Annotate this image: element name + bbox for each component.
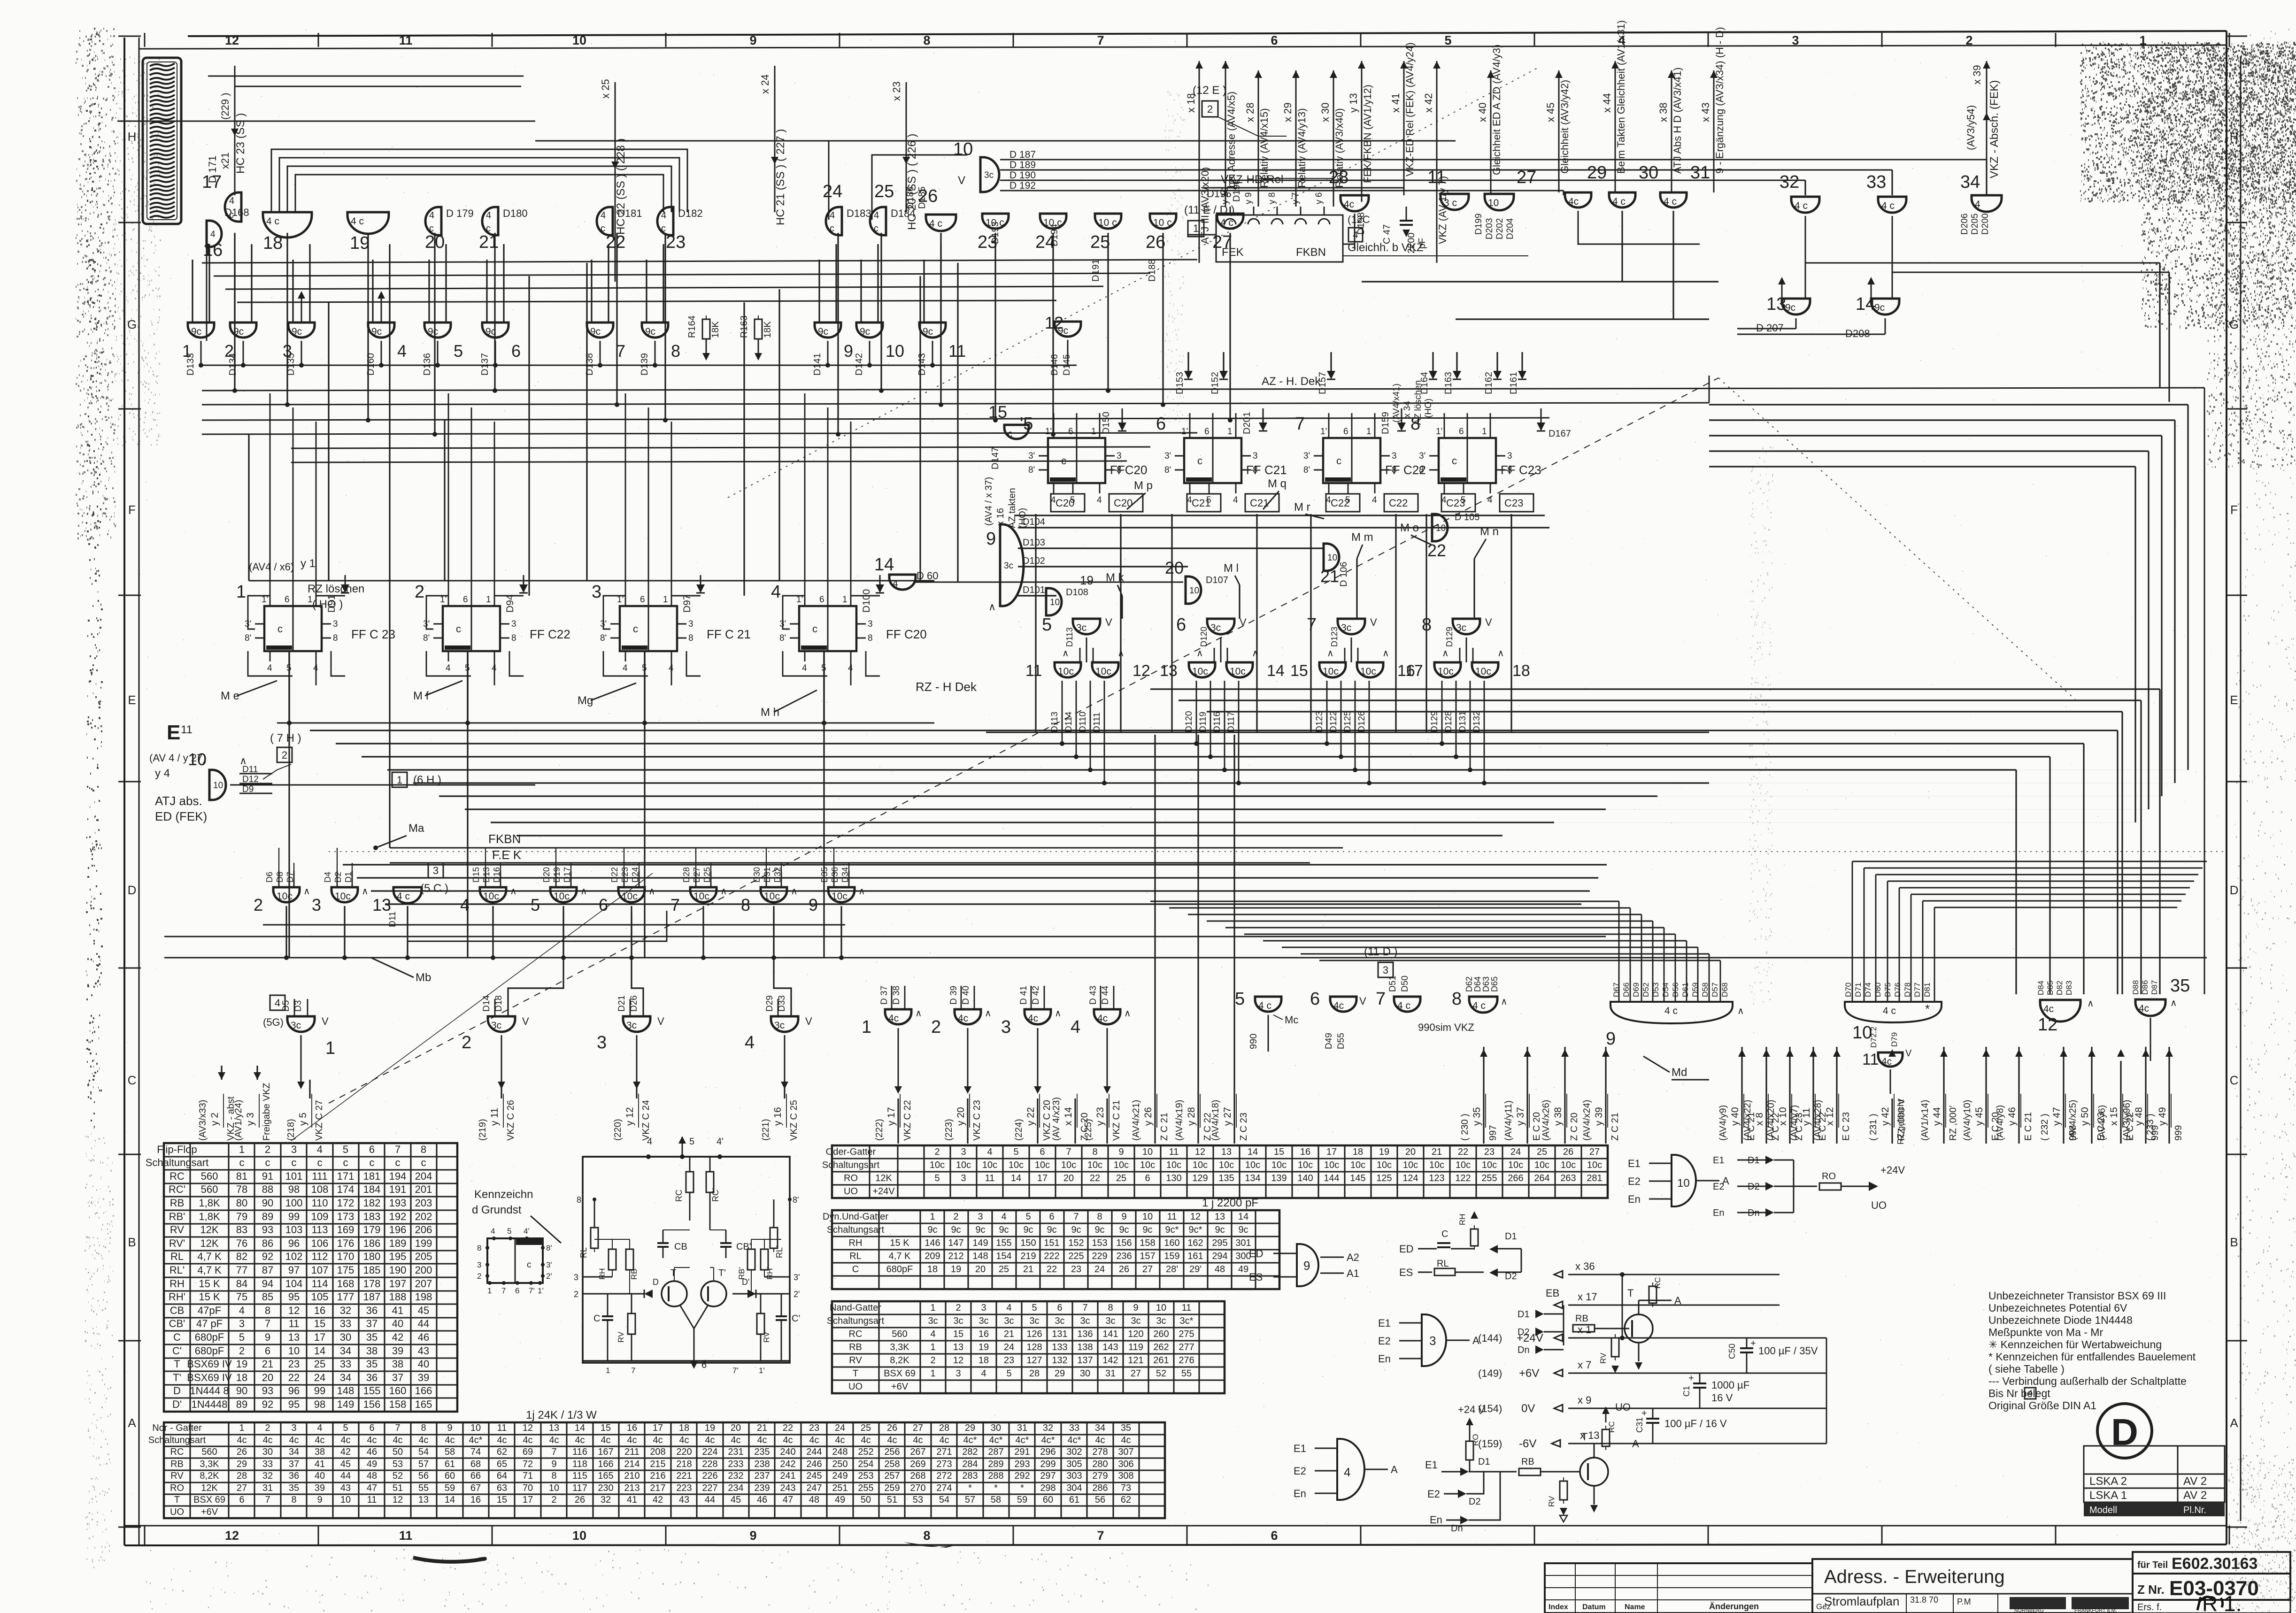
svg-text:25: 25 <box>874 182 894 201</box>
svg-text:12: 12 <box>953 1355 963 1366</box>
svg-text:D108: D108 <box>1066 587 1088 598</box>
svg-text:104: 104 <box>285 1278 303 1290</box>
diode D <box>644 1290 653 1298</box>
svg-text:H: H <box>2230 130 2239 144</box>
svg-text:D161: D161 <box>1509 372 1519 394</box>
svg-text:10: 10 <box>1142 1212 1153 1222</box>
svg-text:89: 89 <box>262 1211 273 1222</box>
svg-text:c: c <box>812 623 817 635</box>
svg-text:y 5: y 5 <box>298 1113 308 1126</box>
resistor R164 18K <box>702 319 710 339</box>
svg-text:6: 6 <box>1068 427 1073 437</box>
svg-text:57: 57 <box>965 1495 975 1505</box>
svg-text:RV: RV <box>1547 1496 1556 1507</box>
svg-text:271: 271 <box>936 1447 952 1457</box>
svg-text:y 11: y 11 <box>1801 1108 1812 1126</box>
svg-text:306: 306 <box>1118 1459 1133 1469</box>
svg-text:5: 5 <box>531 895 540 914</box>
flip-flop FF C21 (right) <box>1184 438 1241 483</box>
svg-text:4c: 4c <box>731 1435 740 1445</box>
svg-text:1: 1 <box>663 595 668 605</box>
wire FF circuit bottom rail <box>583 1360 790 1362</box>
svg-text:13: 13 <box>953 1342 963 1352</box>
svg-text:D28: D28 <box>682 867 691 883</box>
svg-text:D120: D120 <box>1184 711 1194 732</box>
wire signal y 20 VKZ C 23 <box>967 1098 968 1144</box>
svg-text:6: 6 <box>599 895 608 914</box>
svg-text:7: 7 <box>265 1495 270 1505</box>
gate 5 (9c) diode D136 <box>424 323 451 338</box>
svg-text:RO: RO <box>170 1483 184 1493</box>
svg-text:9 - Ergänzung (AV3/x34) (H -: 9 - Ergänzung (AV3/x34) (H - D) <box>1714 27 1726 174</box>
svg-text:7: 7 <box>551 1447 556 1457</box>
node (5C) box 3 <box>428 863 443 878</box>
svg-text:6: 6 <box>1057 1303 1062 1313</box>
svg-text:140: 140 <box>1297 1173 1313 1183</box>
svg-text:NÜRNBERG: NÜRNBERG <box>2014 1608 2044 1613</box>
svg-text:x 12: x 12 <box>1825 1107 1835 1126</box>
svg-text:8': 8' <box>1303 465 1310 475</box>
svg-text:RC': RC' <box>169 1183 185 1195</box>
svg-text:3c: 3c <box>1029 1316 1039 1326</box>
svg-text:21: 21 <box>262 1358 273 1370</box>
svg-text:D86: D86 <box>2141 980 2150 995</box>
svg-text:254: 254 <box>858 1459 873 1469</box>
svg-text:Schaltungsart: Schaltungsart <box>827 1225 885 1235</box>
svg-text:75: 75 <box>236 1291 247 1303</box>
svg-text:8: 8 <box>741 895 750 914</box>
resistor RH <box>609 1249 616 1270</box>
svg-text:1N444 8: 1N444 8 <box>190 1385 229 1397</box>
svg-text:1: 1 <box>486 595 491 605</box>
svg-text:28: 28 <box>1329 168 1348 187</box>
svg-text:D 192: D 192 <box>1009 180 1036 191</box>
svg-text:1: 1 <box>862 1017 871 1037</box>
svg-text:3c: 3c <box>1341 622 1351 633</box>
svg-text:25: 25 <box>861 1423 871 1433</box>
svg-text:4c: 4c <box>237 1435 247 1445</box>
wire power rail x17 <box>1568 1305 1780 1306</box>
svg-text:VKZ C 27: VKZ C 27 <box>314 1100 324 1141</box>
svg-text:y 49: y 49 <box>2157 1107 2168 1126</box>
svg-text:56: 56 <box>1095 1495 1105 1505</box>
svg-text:12: 12 <box>393 1495 403 1505</box>
svg-text:146: 146 <box>925 1238 940 1248</box>
svg-text:14: 14 <box>575 1423 585 1433</box>
svg-text:c: c <box>601 223 605 234</box>
svg-text:36: 36 <box>366 1372 378 1383</box>
svg-text:192: 192 <box>389 1211 407 1222</box>
svg-text:31: 31 <box>1017 1423 1027 1433</box>
wire horizontal link y300 <box>535 140 1193 142</box>
svg-text:91: 91 <box>262 1170 273 1182</box>
svg-text:98: 98 <box>288 1183 300 1195</box>
svg-text:149: 149 <box>972 1238 988 1248</box>
svg-text:29: 29 <box>1587 163 1607 183</box>
svg-text:4: 4 <box>486 210 491 221</box>
svg-text:9: 9 <box>986 529 996 549</box>
svg-text:33: 33 <box>1069 1423 1079 1433</box>
svg-text:D80: D80 <box>1873 983 1882 997</box>
svg-text:x 25: x 25 <box>600 79 611 99</box>
svg-text:4c: 4c <box>1568 196 1579 207</box>
wire FF pins 3 and 2 rails <box>583 1276 612 1278</box>
svg-text:5: 5 <box>343 1423 348 1433</box>
svg-text:58: 58 <box>991 1495 1001 1505</box>
svg-text:160: 160 <box>1164 1238 1179 1248</box>
svg-text:10 c: 10 c <box>1098 217 1117 228</box>
wire signal y 44 RZ ,000' <box>1943 1047 1944 1144</box>
svg-text:(HO): (HO) <box>1424 399 1433 418</box>
svg-text:E: E <box>128 693 136 707</box>
svg-text:D63: D63 <box>1481 976 1491 992</box>
svg-text:13: 13 <box>1221 1147 1232 1157</box>
svg-text:Schaltungsart: Schaltungsart <box>827 1316 885 1326</box>
svg-text:1: 1 <box>397 774 402 786</box>
svg-text:c: c <box>292 1157 297 1168</box>
gate 27 (10c) <box>1485 194 1514 210</box>
svg-text:C: C <box>593 1313 600 1324</box>
svg-text:D8: D8 <box>275 872 285 883</box>
svg-text:13: 13 <box>1160 662 1178 680</box>
svg-text:Nand-Gatter: Nand-Gatter <box>830 1303 881 1313</box>
svg-text:39: 39 <box>315 1483 325 1493</box>
svg-text:T': T' <box>718 1268 726 1278</box>
wire surround of FF C 21 <box>603 596 625 629</box>
gate 22 (10c) diode D105 Mo Mn <box>1432 514 1448 541</box>
svg-text:242: 242 <box>780 1459 795 1469</box>
node flip-flop internal circuit box <box>583 1157 790 1363</box>
svg-text:72: 72 <box>523 1459 533 1469</box>
svg-text:RH: RH <box>849 1238 863 1248</box>
wire gates 29-31 connection <box>1578 211 1700 244</box>
svg-text:8: 8 <box>421 1423 426 1433</box>
svg-text:c: c <box>830 223 834 234</box>
svg-text:158: 158 <box>1140 1238 1155 1248</box>
svg-text:4c: 4c <box>549 1435 559 1445</box>
svg-text:42: 42 <box>340 1447 351 1457</box>
svg-text:D129: D129 <box>1445 627 1454 647</box>
svg-text:100 µF / 35V: 100 µF / 35V <box>1758 1345 1818 1357</box>
svg-text:4: 4 <box>601 210 606 221</box>
wire top feeds of FF C22 <box>1328 413 1330 428</box>
wire -6V rail (159) x13 <box>1568 1443 1826 1444</box>
wire 0V rail (154) x9 <box>1568 1408 1826 1409</box>
svg-text:E C 20: E C 20 <box>1532 1112 1542 1141</box>
svg-text:18: 18 <box>927 1264 938 1275</box>
gate 5 (10c) <box>550 887 577 902</box>
svg-text:21: 21 <box>479 232 499 252</box>
svg-text:D 43: D 43 <box>1088 986 1098 1005</box>
svg-text:∧: ∧ <box>239 755 247 767</box>
svg-text:x 10: x 10 <box>1778 1107 1788 1126</box>
svg-text:D107: D107 <box>1206 575 1228 585</box>
svg-text:D30: D30 <box>752 867 762 883</box>
svg-text:M l: M l <box>1224 562 1239 575</box>
svg-text:Unbezeichnete Diode 1N444: Unbezeichnete Diode 1N4448 <box>1988 1314 2133 1326</box>
svg-text:(AV4/x25): (AV4/x25) <box>2068 1100 2078 1141</box>
gate 30 (4c) <box>1609 192 1635 207</box>
svg-text:RB: RB <box>849 1342 862 1352</box>
svg-text:80: 80 <box>236 1197 247 1209</box>
svg-text:10c: 10c <box>483 891 499 902</box>
svg-text:4c: 4c <box>887 1435 897 1445</box>
svg-text:3: 3 <box>333 619 338 629</box>
svg-text:4: 4 <box>210 230 216 239</box>
svg-text:Ers. f.: Ers. f. <box>2137 1602 2162 1613</box>
svg-text:40: 40 <box>315 1471 325 1481</box>
svg-text:D200: D200 <box>1980 214 1990 235</box>
svg-text:9: 9 <box>1133 1303 1138 1313</box>
svg-text:126: 126 <box>1026 1329 1042 1339</box>
svg-text:4: 4 <box>2028 1389 2033 1398</box>
svg-text:239: 239 <box>754 1483 770 1493</box>
svg-text:90: 90 <box>262 1197 273 1209</box>
svg-text:D147: D147 <box>990 447 1001 469</box>
gate 6 (9c) diode D137 <box>482 323 509 338</box>
svg-text:D27: D27 <box>692 867 701 883</box>
svg-text:283: 283 <box>962 1471 978 1481</box>
svg-text:25: 25 <box>1537 1147 1547 1157</box>
svg-text:12K: 12K <box>200 1224 218 1236</box>
svg-text:16: 16 <box>1300 1147 1310 1157</box>
svg-text:( 7 H ): ( 7 H ) <box>270 732 301 745</box>
svg-text:169: 169 <box>337 1224 354 1236</box>
svg-text:295: 295 <box>1212 1238 1227 1248</box>
svg-text:1,8K: 1,8K <box>199 1197 220 1209</box>
svg-text:14: 14 <box>1011 1173 1021 1183</box>
svg-text:25: 25 <box>314 1358 325 1370</box>
gate 8 (3c) cluster <box>1453 619 1480 634</box>
svg-text:165: 165 <box>415 1398 432 1410</box>
svg-text:RL: RL <box>579 1247 588 1258</box>
svg-text:D 40: D 40 <box>961 986 971 1005</box>
node title block signatures and logos <box>1812 1593 2133 1595</box>
svg-text:F.E K: F.E K <box>492 848 522 862</box>
svg-text:10: 10 <box>1156 1303 1166 1313</box>
svg-text:D70: D70 <box>1844 983 1853 997</box>
svg-text:0V: 0V <box>1521 1402 1535 1415</box>
svg-text:10: 10 <box>549 1483 559 1493</box>
svg-text:190: 190 <box>389 1264 407 1276</box>
svg-text:3c: 3c <box>1004 1316 1014 1326</box>
svg-text:5: 5 <box>1025 1212 1031 1222</box>
svg-text:8: 8 <box>333 633 338 643</box>
svg-text:V: V <box>805 1015 812 1027</box>
svg-text:3: 3 <box>868 619 873 629</box>
svg-text:70: 70 <box>523 1483 533 1493</box>
svg-text:3: 3 <box>511 619 516 629</box>
svg-text:273: 273 <box>936 1459 952 1469</box>
svg-text:D116: D116 <box>1212 712 1222 732</box>
svg-text:245: 245 <box>806 1471 822 1481</box>
wire signal y 45 E C 20 <box>1985 1047 1987 1144</box>
svg-text:2: 2 <box>1207 103 1213 115</box>
svg-text:11: 11 <box>1427 168 1446 187</box>
svg-text:D36: D36 <box>830 867 840 883</box>
svg-text:Modell: Modell <box>2089 1505 2117 1515</box>
svg-text:RO: RO <box>844 1173 858 1183</box>
svg-text:5: 5 <box>1013 1147 1018 1157</box>
svg-text:9c: 9c <box>1238 1225 1248 1235</box>
svg-text:c: c <box>1008 429 1013 439</box>
svg-text:D57: D57 <box>1710 983 1719 997</box>
flip-flop FF C 23 (left) <box>264 606 322 651</box>
svg-text:5: 5 <box>239 1331 245 1343</box>
svg-text:D19: D19 <box>552 867 562 883</box>
svg-text:293: 293 <box>1014 1459 1030 1469</box>
svg-text:14: 14 <box>1248 1147 1258 1157</box>
svg-text:10: 10 <box>340 1495 351 1505</box>
svg-text:D66: D66 <box>1622 983 1631 997</box>
gate 3 (E1 E2 En nand) <box>1422 1314 1446 1366</box>
svg-text:207: 207 <box>415 1278 432 1290</box>
svg-text:150: 150 <box>1020 1238 1036 1248</box>
svg-text:259: 259 <box>884 1483 900 1493</box>
svg-text:D61: D61 <box>1681 983 1690 997</box>
svg-text:∧: ∧ <box>1497 648 1504 659</box>
svg-text:9: 9 <box>1121 1212 1126 1222</box>
svg-text:c: c <box>343 1157 348 1168</box>
wire HC23(SS)(229) input line x21 <box>234 66 236 195</box>
svg-text:V: V <box>958 174 965 187</box>
resistor RV' <box>757 1313 764 1334</box>
svg-text:2: 2 <box>1965 33 1972 47</box>
wire signal y 11 VKZ C 26 <box>501 1080 502 1098</box>
svg-text:37: 37 <box>366 1318 378 1329</box>
svg-text:8': 8' <box>793 1195 799 1205</box>
svg-text:∧: ∧ <box>2087 999 2094 1009</box>
svg-text:x 36: x 36 <box>1575 1260 1595 1272</box>
svg-text:Adress. - Erweiterung: Adress. - Erweiterung <box>1824 1567 2005 1587</box>
svg-text:1: 1 <box>930 1303 935 1313</box>
svg-text:42: 42 <box>653 1495 663 1505</box>
svg-text:Beim Takten Gleichheit (AV1/x3: Beim Takten Gleichheit (AV1/x31) <box>1615 20 1627 174</box>
svg-text:UO: UO <box>844 1186 858 1197</box>
svg-text:10 c: 10 c <box>1153 217 1172 228</box>
svg-text:4: 4 <box>745 1033 755 1052</box>
svg-text:83: 83 <box>236 1224 247 1236</box>
svg-text:4: 4 <box>460 895 470 914</box>
svg-text:132: 132 <box>1052 1355 1067 1366</box>
svg-text:c: c <box>277 623 283 635</box>
svg-text:34: 34 <box>1095 1423 1105 1433</box>
svg-text:RC: RC <box>170 1447 184 1457</box>
svg-text:10: 10 <box>1142 1147 1153 1157</box>
svg-text:CB': CB' <box>736 1242 751 1252</box>
svg-text:4c: 4c <box>939 1435 949 1445</box>
svg-text:D199: D199 <box>1474 214 1484 235</box>
svg-text:1000 µF: 1000 µF <box>1711 1379 1749 1391</box>
svg-text:4: 4 <box>229 196 234 206</box>
svg-text:26: 26 <box>575 1495 585 1505</box>
svg-text:214: 214 <box>624 1459 639 1469</box>
svg-text:6: 6 <box>1040 1147 1045 1157</box>
svg-text:10c: 10c <box>1193 1160 1208 1170</box>
svg-text:28: 28 <box>1029 1368 1040 1379</box>
wire signal y 11 E C 22 <box>1812 1047 1814 1144</box>
svg-text:53: 53 <box>913 1495 923 1505</box>
svg-text:y 17: y 17 <box>886 1107 897 1126</box>
svg-text:264: 264 <box>1534 1173 1549 1183</box>
svg-text:6: 6 <box>640 595 645 605</box>
svg-text:84: 84 <box>236 1278 247 1290</box>
svg-text:217: 217 <box>650 1483 665 1493</box>
svg-text:x 7: x 7 <box>1578 1359 1591 1371</box>
svg-text:26: 26 <box>237 1447 247 1457</box>
svg-text:304: 304 <box>1066 1483 1082 1493</box>
svg-text:35: 35 <box>2170 976 2190 996</box>
svg-text:(AV4/x22): (AV4/x22) <box>1742 1100 1753 1141</box>
svg-text:21: 21 <box>757 1423 767 1433</box>
svg-text:123: 123 <box>1429 1173 1444 1183</box>
svg-text:D85: D85 <box>2046 981 2055 995</box>
svg-text:9: 9 <box>447 1423 452 1433</box>
capacitor C' <box>776 1315 787 1317</box>
svg-text:En: En <box>1430 1514 1442 1526</box>
svg-text:17: 17 <box>1405 662 1423 680</box>
svg-text:D103: D103 <box>1023 538 1045 548</box>
svg-text:45: 45 <box>418 1305 429 1316</box>
svg-text:251: 251 <box>832 1483 848 1493</box>
svg-text:(AV4/y8): (AV4/y8) <box>1995 1105 2005 1141</box>
svg-text:44: 44 <box>705 1495 715 1505</box>
gate 11 (4c) D79 <box>1878 1052 1903 1067</box>
svg-text:20: 20 <box>731 1423 741 1433</box>
svg-text:3': 3' <box>1164 451 1171 461</box>
svg-text:49: 49 <box>835 1495 845 1505</box>
gate 19 (10c) diode D108 Mk <box>1046 588 1062 615</box>
svg-text:D117: D117 <box>1226 712 1236 732</box>
svg-text:16: 16 <box>203 240 223 260</box>
svg-text:3: 3 <box>1001 1017 1011 1037</box>
svg-text:3c: 3c <box>1055 1316 1064 1326</box>
svg-text:18: 18 <box>1512 662 1530 680</box>
transistor T' <box>701 1281 726 1306</box>
flip-flop FF C20 (left) <box>799 606 856 651</box>
svg-text:1: 1 <box>930 1342 935 1352</box>
svg-text:155: 155 <box>363 1385 381 1397</box>
node (5G) box 4 <box>270 995 285 1010</box>
svg-text:G: G <box>2229 317 2239 331</box>
gate 22 (4c) diode D181 <box>597 207 613 235</box>
svg-text:4,7 K: 4,7 K <box>889 1251 911 1261</box>
svg-text:29': 29' <box>1189 1264 1202 1275</box>
svg-text:Gleichheit ED A ZD (AV4/y3): Gleichheit ED A ZD (AV4/y3) <box>1491 45 1502 175</box>
svg-text:3: 3 <box>239 1318 245 1329</box>
svg-text:168: 168 <box>337 1278 354 1290</box>
svg-text:171: 171 <box>337 1170 354 1182</box>
svg-text:RL: RL <box>849 1251 862 1261</box>
svg-text:9c: 9c <box>1215 1225 1225 1235</box>
svg-text:9c: 9c <box>1874 302 1885 313</box>
svg-text:c: c <box>239 1157 245 1168</box>
svg-text:y 44: y 44 <box>1932 1107 1942 1126</box>
svg-text:Schaltungsart: Schaltungsart <box>822 1160 880 1170</box>
svg-text:VKZ-ED Rel (FEK) (AV4/y24): VKZ-ED Rel (FEK) (AV4/y24) <box>1404 42 1416 177</box>
svg-text:122: 122 <box>1455 1173 1471 1183</box>
svg-text:D68: D68 <box>1720 983 1729 997</box>
wire bus comb into gate 10 <box>1852 861 1853 1002</box>
svg-text:152: 152 <box>1068 1238 1084 1248</box>
gate 12 (10c) <box>1092 662 1118 677</box>
svg-text:x 16: x 16 <box>995 508 1006 526</box>
svg-text:73: 73 <box>1121 1483 1131 1493</box>
svg-text:VKZ - Absch. (FEK): VKZ - Absch. (FEK) <box>1988 80 2001 178</box>
svg-text:Dn: Dn <box>1518 1345 1530 1355</box>
svg-text:D4: D4 <box>323 872 332 883</box>
svg-text:31.8 70: 31.8 70 <box>1910 1595 1938 1605</box>
